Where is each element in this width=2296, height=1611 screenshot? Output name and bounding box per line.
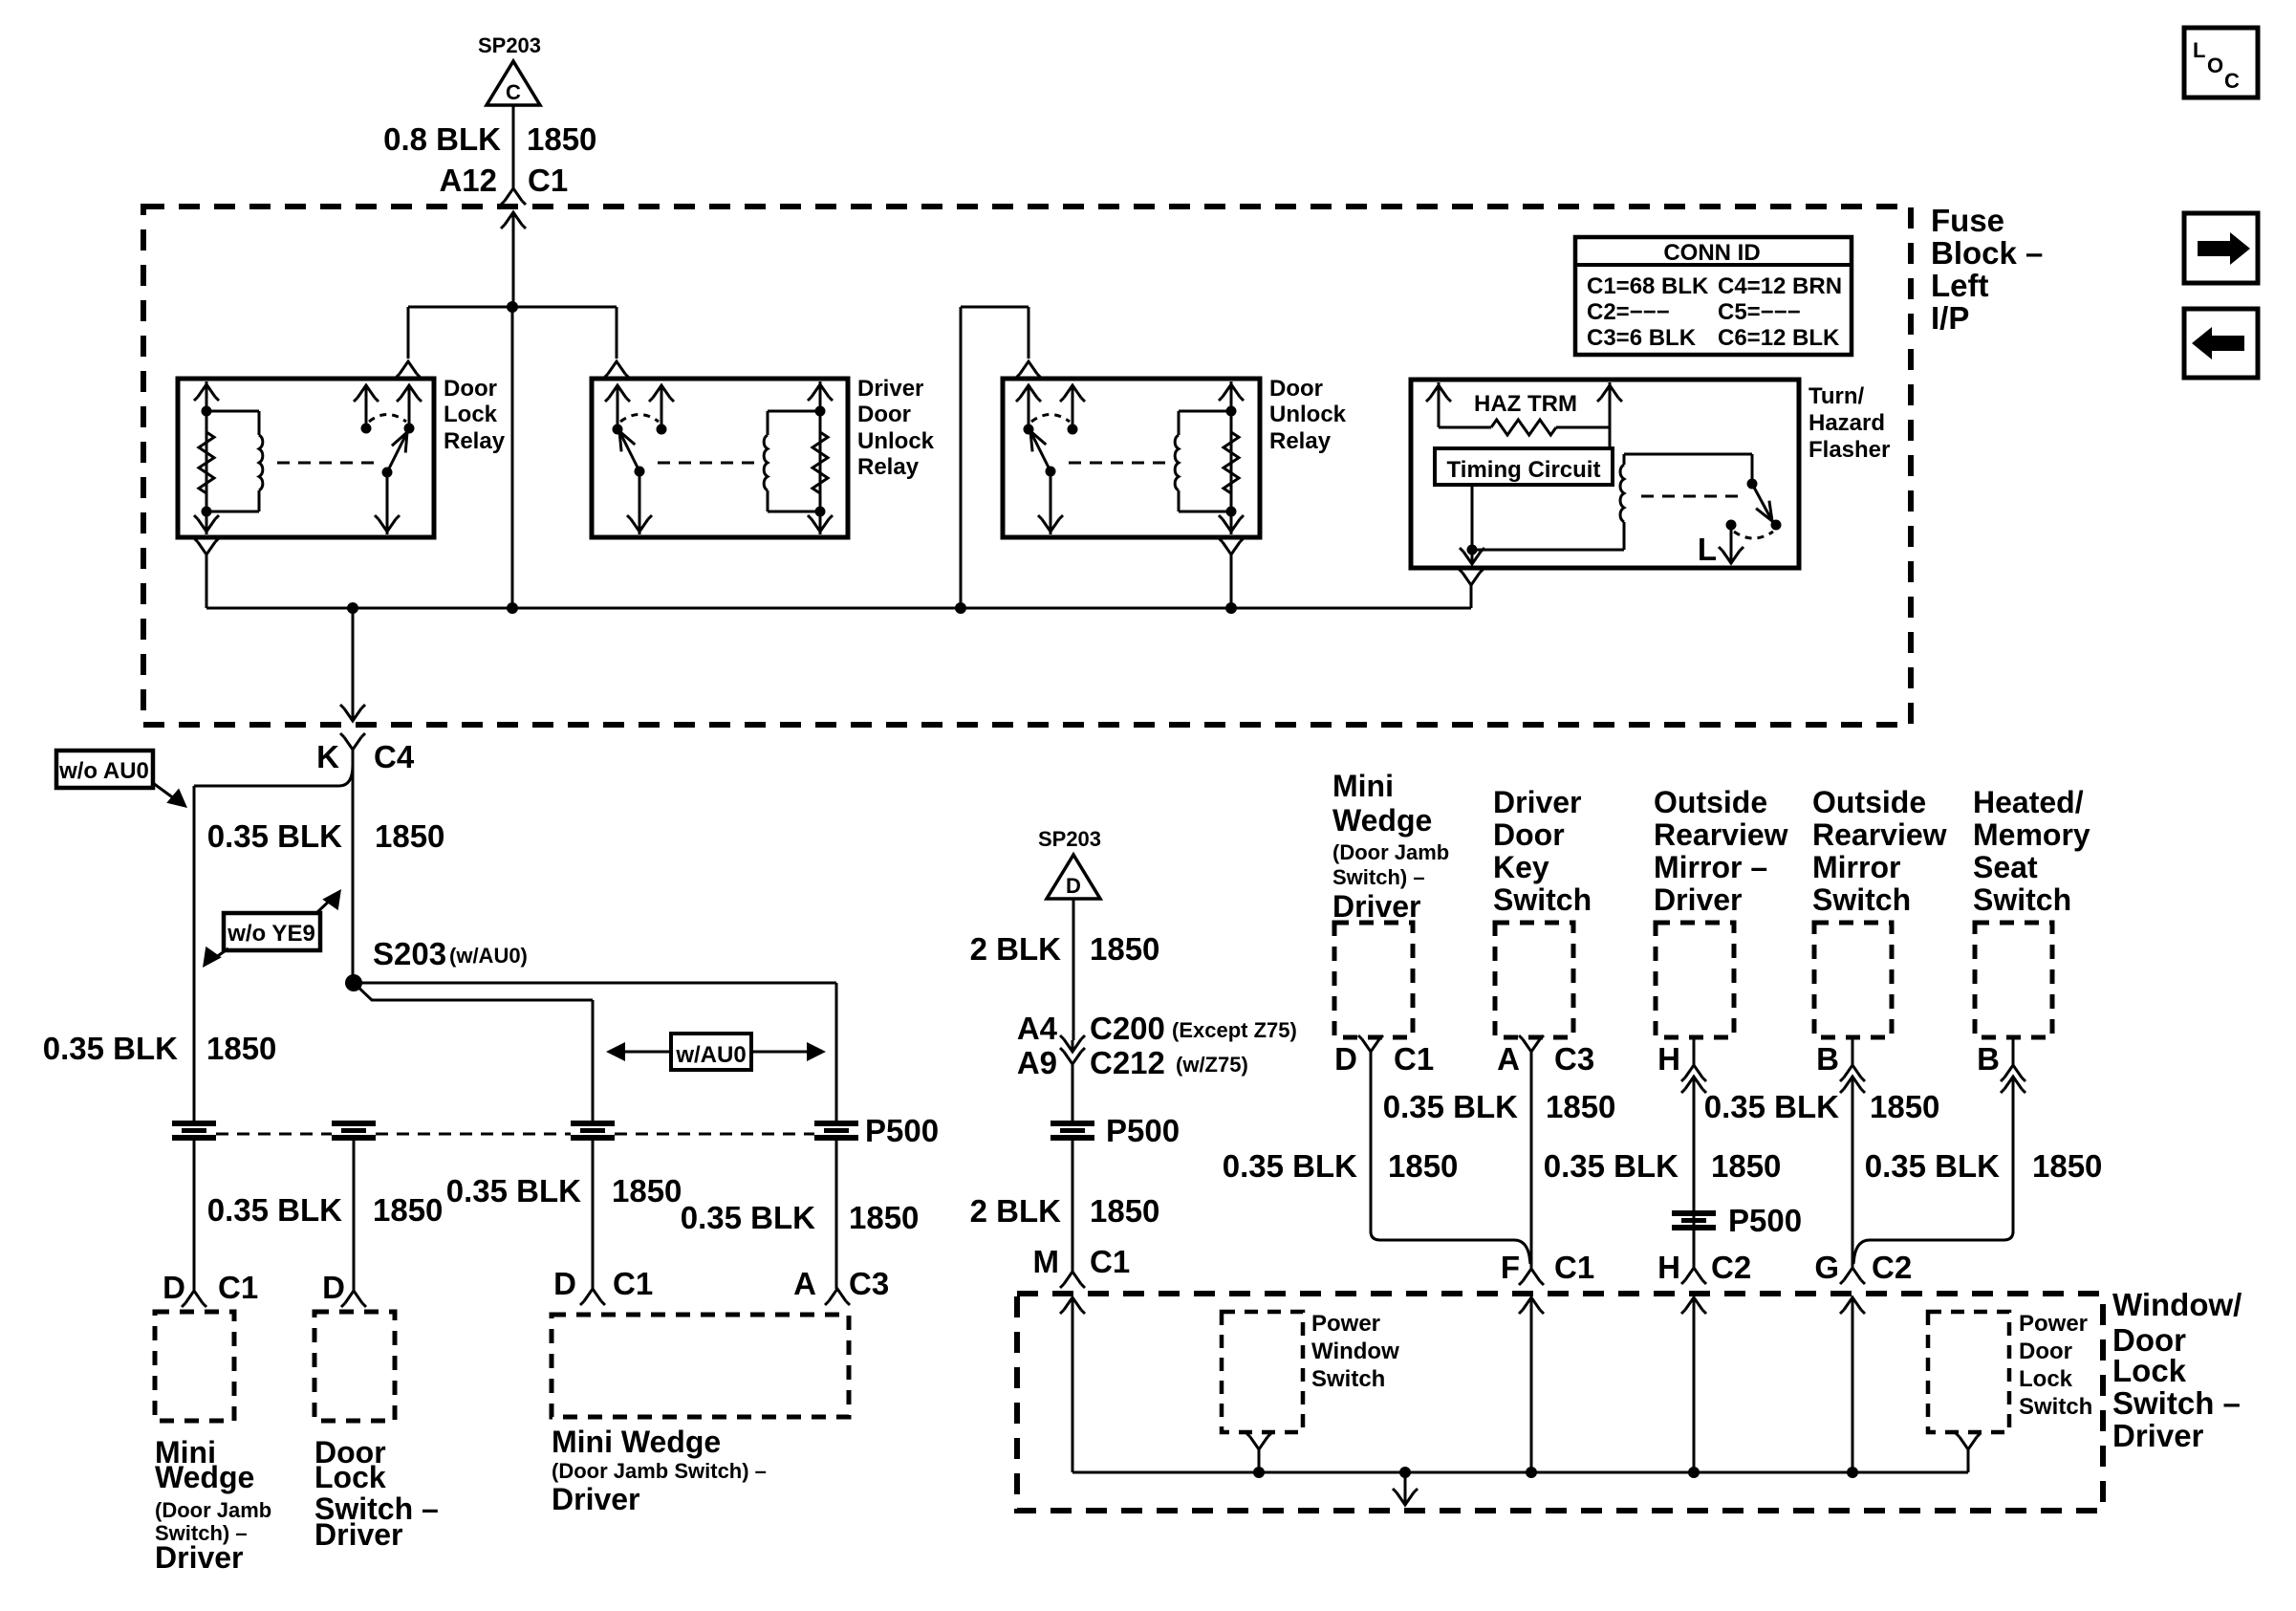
relay K2 actuation dashed link (658, 462, 760, 465)
connector below relay K3 (female) (1219, 538, 1244, 555)
wire label 0.35 BLK 1850 (mini wedge right) (1223, 1148, 1459, 1184)
fuse block dashed outline (Fuse Block - Left I/P) (143, 207, 1911, 725)
turn/hazard flasher box (1411, 380, 1799, 568)
relay K3 switch common drop (1038, 471, 1063, 534)
svg-text:1850: 1850 (373, 1192, 443, 1228)
component box Outside Rearview Mirror Driver (1656, 923, 1734, 1037)
node junction at feed split (507, 301, 518, 313)
svg-text:Driver: Driver (1654, 882, 1743, 917)
svg-text:H: H (1657, 1250, 1680, 1285)
flasher switch pivot (1747, 479, 1758, 490)
svg-text:1850: 1850 (527, 121, 596, 157)
label Power Window Switch (1311, 1311, 1399, 1392)
svg-text:0.35 BLK: 0.35 BLK (446, 1173, 581, 1208)
svg-text:Door: Door (2019, 1339, 2072, 1364)
svg-text:Driver: Driver (857, 376, 923, 402)
connector chevron into door lock relay (396, 361, 421, 378)
wire into fuse block with arrow (501, 212, 526, 307)
node bus-relay K3 riser (955, 602, 966, 614)
relay K2 coil bottom node (815, 507, 826, 517)
wire M C1 into box (1060, 1297, 1085, 1472)
svg-text:K: K (316, 739, 339, 774)
svg-text:Left: Left (1931, 268, 1989, 303)
label Door Unlock Relay (1269, 376, 1347, 454)
svg-text:1850: 1850 (375, 818, 444, 854)
svg-text:2 BLK: 2 BLK (970, 1193, 1062, 1229)
wire label 2 BLK 1850 (upper) (970, 931, 1160, 967)
timing circuit box (1435, 448, 1613, 485)
svg-text:0.35 BLK: 0.35 BLK (1865, 1148, 2000, 1184)
connector into door lock switch (female) (341, 1291, 366, 1307)
svg-text:Switch: Switch (1812, 882, 1911, 917)
svg-text:1850: 1850 (849, 1200, 919, 1235)
svg-text:1850: 1850 (2032, 1148, 2102, 1184)
connector below power window switch (female) (1246, 1433, 1271, 1472)
callout w/o YE9 (203, 889, 341, 968)
callout w/o AU0 (56, 751, 187, 808)
svg-text:A12: A12 (439, 163, 497, 198)
connector C2 pin G (female) (1840, 1268, 1865, 1284)
terminal label A / C3 (key switch) (1497, 1041, 1594, 1077)
wire feed bus to relays 1 and 2 (408, 306, 617, 309)
svg-text:G: G (1814, 1250, 1839, 1285)
wire F C1 into box (1519, 1297, 1544, 1472)
svg-text:C1=68 BLK: C1=68 BLK (1587, 273, 1709, 299)
svg-text:1850: 1850 (1546, 1089, 1615, 1124)
wire to flasher coil (1472, 549, 1624, 552)
svg-text:Door: Door (1493, 817, 1565, 852)
svg-text:w/o AU0: w/o AU0 (58, 758, 149, 784)
relay K2 switch common drop (627, 471, 652, 534)
wire drop to driver door unlock relay (616, 307, 618, 359)
svg-text:F: F (1501, 1250, 1520, 1285)
svg-text:w/AU0: w/AU0 (675, 1042, 746, 1068)
callout w/AU0 double arrow (606, 1034, 826, 1070)
svg-text:S203: S203 (373, 936, 446, 971)
svg-text:Turn/: Turn/ (1809, 383, 1865, 409)
svg-text:Timing Circuit: Timing Circuit (1447, 457, 1601, 483)
label Power Door Lock Switch (2019, 1311, 2092, 1420)
node bus-main vertical (507, 602, 518, 614)
svg-text:Lock: Lock (2019, 1366, 2073, 1392)
svg-text:(w/Z75): (w/Z75) (1176, 1053, 1248, 1077)
svg-text:Mini Wedge: Mini Wedge (552, 1425, 721, 1459)
wire mirror driver down (1693, 1037, 1696, 1268)
terminal label B (mirror switch) (1816, 1041, 1839, 1077)
svg-text:Heated/: Heated/ (1973, 785, 2084, 819)
svg-text:(w/AU0): (w/AU0) (449, 944, 528, 968)
ground exit arrow (1393, 1472, 1418, 1505)
label Window/Door Lock Switch Driver (2112, 1287, 2242, 1453)
grommet P500 (wire 2) (332, 1121, 376, 1141)
label Door Lock Relay (444, 376, 506, 454)
node bus ground exit (1399, 1467, 1411, 1478)
connector below door lock relay (female) (194, 538, 219, 555)
relay K3 coil bottom node (1226, 507, 1237, 517)
svg-text:Block –: Block – (1931, 235, 2043, 271)
relay K2 switch terminal 2 (649, 385, 674, 435)
relay K2 coil top node (815, 406, 826, 417)
svg-text:C1: C1 (1090, 1244, 1130, 1279)
grommet P500 (wire 1) (172, 1121, 216, 1141)
connector C2 pin H (female) (1681, 1268, 1706, 1284)
svg-text:C1: C1 (1394, 1041, 1434, 1077)
connector double chevron (seat switch) (2001, 1065, 2025, 1093)
component box Power Door Lock Switch (1928, 1312, 2009, 1432)
svg-text:Outside: Outside (1812, 785, 1926, 819)
wire S203 top branch (354, 983, 836, 1122)
terminal label F / C1 (1501, 1250, 1594, 1285)
svg-text:O: O (2207, 54, 2223, 77)
wire label 0.35 BLK 1850 (K C4 wire) (207, 818, 445, 854)
svg-text:0.35 BLK: 0.35 BLK (207, 1192, 342, 1228)
component box Mini Wedge (Door Jamb Switch) Driver 2 (552, 1315, 849, 1417)
svg-text:D: D (553, 1266, 576, 1301)
label HAZ TRM (1474, 391, 1577, 417)
connector into mini wedge box D (female) (580, 1289, 605, 1305)
label P500 (865, 1113, 939, 1148)
wire elbow mini wedge right to F C1 (1371, 1231, 1530, 1264)
wire H C2 into box (1681, 1297, 1706, 1472)
wire label 0.35 BLK 1850 (mirror switch) (1704, 1089, 1940, 1124)
grommet P500 (main wire) (1051, 1121, 1094, 1141)
svg-text:B: B (1816, 1041, 1839, 1077)
svg-text:D: D (162, 1270, 185, 1305)
label Timing Circuit (1447, 457, 1601, 483)
relay K3 switch arm (1030, 431, 1056, 477)
relay K1 Door Lock Relay box (178, 379, 434, 537)
svg-text:Driver: Driver (2112, 1418, 2204, 1453)
wire bus drop to connector C4 (340, 608, 365, 721)
label Fuse Block - Left I/P (1931, 203, 2043, 336)
svg-text:Window: Window (1311, 1339, 1399, 1364)
terminal label D / C1 (wire 3) (553, 1266, 653, 1301)
svg-text:C2=−−−: C2=−−− (1587, 299, 1670, 325)
relay K1 switch terminal 1 (354, 385, 379, 434)
relay K2 Driver Door Unlock Relay box (592, 379, 848, 537)
svg-text:Lock: Lock (444, 402, 498, 427)
label Driver Door Key Switch (1493, 785, 1592, 917)
node bus G (1847, 1467, 1858, 1478)
icon LOC (2184, 28, 2258, 98)
icon arrow left (2184, 309, 2258, 378)
svg-text:1850: 1850 (206, 1031, 276, 1066)
svg-text:Seat: Seat (1973, 850, 2038, 884)
inductor coil in relay K3 (1175, 435, 1179, 490)
internal ground bus (1072, 1471, 1968, 1474)
connector into mini wedge box A (female) (825, 1289, 850, 1305)
wire 4 to mini wedge box (835, 1139, 838, 1289)
svg-text:Window/: Window/ (2112, 1287, 2242, 1322)
svg-text:C212: C212 (1090, 1045, 1165, 1080)
resistor in relay K2 (812, 432, 828, 493)
svg-text:C3=6 BLK: C3=6 BLK (1587, 325, 1697, 351)
svg-text:Switch: Switch (1973, 882, 2071, 917)
connector into mini wedge 1 (female) (182, 1291, 206, 1307)
svg-text:C1: C1 (1554, 1250, 1594, 1285)
svg-text:A4: A4 (1017, 1011, 1058, 1046)
terminal label M / C1 (1033, 1244, 1131, 1279)
wire drop to door lock relay (407, 307, 410, 359)
svg-text:Relay: Relay (1269, 428, 1332, 454)
svg-text:Wedge: Wedge (1332, 803, 1432, 838)
svg-text:SP203: SP203 (1038, 827, 1101, 851)
svg-text:HAZ TRM: HAZ TRM (1474, 391, 1577, 417)
relay K3 switch terminal 2 (1060, 385, 1085, 435)
flasher right pin line (1597, 382, 1622, 448)
wire SP203-D down (1072, 899, 1075, 1040)
flasher ground pin arrow (1460, 548, 1484, 564)
svg-text:Power: Power (1311, 1311, 1380, 1337)
svg-text:Switch –: Switch – (2112, 1385, 2241, 1421)
node bus F (1526, 1467, 1537, 1478)
connector below key switch (female) (1519, 1035, 1544, 1052)
splice symbol SP203 (triangle C) (478, 33, 541, 105)
svg-text:Fuse: Fuse (1931, 203, 2004, 238)
flasher switch contact 2 (1771, 520, 1782, 531)
svg-text:0.35 BLK: 0.35 BLK (1223, 1148, 1357, 1184)
icon arrow right (2184, 213, 2258, 283)
svg-text:Driver: Driver (1493, 785, 1582, 819)
component box Driver Door Key Switch (1495, 923, 1573, 1037)
connector C1 pin A12 (female) (501, 188, 526, 205)
flasher switch dashed arc (1734, 532, 1773, 538)
svg-text:CONN ID: CONN ID (1663, 240, 1760, 266)
wire to M C1 (1072, 1139, 1074, 1272)
grommet P500 (wire 4) (814, 1121, 858, 1141)
terminal label B (seat switch) (1977, 1041, 2000, 1077)
svg-text:Mini: Mini (1332, 769, 1394, 803)
resistor HAZ TRM (1439, 420, 1610, 435)
connector C1 pin F (female) (1519, 1269, 1544, 1285)
svg-text:C: C (506, 80, 521, 104)
node bus power window switch (1253, 1467, 1265, 1478)
relay K1 switch terminal 2 (397, 385, 422, 434)
inductor coil in relay K1 (259, 435, 263, 490)
wire coil to switch pivot (1624, 454, 1752, 484)
svg-text:Memory: Memory (1973, 817, 2090, 852)
wire relay K3 to ground bus (1230, 555, 1233, 608)
svg-text:0.8 BLK: 0.8 BLK (383, 121, 501, 157)
relay K3 coil-side pin line (1219, 381, 1244, 534)
svg-text:C3: C3 (1554, 1041, 1594, 1077)
svg-text:P500: P500 (865, 1113, 939, 1148)
pass-through dashed line P500 (216, 1133, 814, 1136)
svg-text:0.35 BLK: 0.35 BLK (1544, 1148, 1679, 1184)
wire label 0.35 BLK 1850 (seat switch) (1865, 1148, 2103, 1184)
wire key switch down (1530, 1051, 1533, 1269)
relay K3 actuation dashed link (1069, 462, 1171, 465)
node bus H (1688, 1467, 1700, 1478)
label Turn/Hazard Flasher (1809, 383, 1890, 463)
wire main vertical to ground bus (511, 307, 514, 608)
svg-text:A: A (793, 1266, 816, 1301)
label Driver Door Unlock Relay (857, 376, 935, 480)
svg-text:A: A (1497, 1041, 1520, 1077)
relay K1 coil-side pin line (194, 381, 219, 534)
svg-text:P500: P500 (1106, 1113, 1180, 1148)
wire label 0.35 BLK 1850 (wire 3) (446, 1173, 682, 1208)
window/door lock switch dashed outline (1017, 1294, 2103, 1511)
component box Power Window Switch (1222, 1312, 1303, 1432)
node bus-relay K3 ground (1225, 602, 1237, 614)
svg-text:Mirror –: Mirror – (1654, 850, 1767, 884)
svg-text:I/P: I/P (1931, 300, 1969, 336)
svg-text:(Door Jamb: (Door Jamb (155, 1498, 271, 1522)
connector below flasher (female) (1459, 569, 1484, 585)
component box Outside Rearview Mirror Switch (1814, 923, 1892, 1037)
wire riser from ground bus to relay K3 (961, 307, 1029, 608)
relay K3 switch terminal 1 (1016, 385, 1041, 435)
svg-text:0.35 BLK: 0.35 BLK (43, 1031, 178, 1066)
svg-text:C3: C3 (849, 1266, 889, 1301)
wire 1 to mini wedge driver (193, 1139, 196, 1291)
terminal label A12 / C1 (439, 163, 568, 198)
label Heated/Memory Seat Switch (1973, 785, 2090, 917)
terminal labels A4 C200 (Except Z75) (1017, 1011, 1297, 1046)
connector chevron into driver door unlock relay (604, 361, 629, 378)
wire label 0.35 BLK 1850 (wire 4) (681, 1200, 920, 1235)
wire branch to w/o AU0 path (194, 765, 353, 1122)
flasher coil (1620, 454, 1624, 550)
svg-text:0.35 BLK: 0.35 BLK (1383, 1089, 1518, 1124)
label Mini Wedge (Door Jamb Switch) Driver 1 (155, 1435, 271, 1575)
svg-text:Power: Power (2019, 1311, 2088, 1337)
label Mini Wedge (Door Jamb Switch) Driver (right) (1332, 769, 1449, 924)
svg-text:Driver: Driver (314, 1517, 403, 1552)
svg-text:C5=−−−: C5=−−− (1718, 299, 1801, 325)
terminal label D / C1 (mini wedge right) (1334, 1041, 1434, 1077)
svg-text:C: C (2224, 69, 2240, 93)
svg-text:C4=12 BRN: C4=12 BRN (1718, 273, 1842, 299)
svg-text:Rearview: Rearview (1654, 817, 1788, 852)
node timing circuit ground junction (1467, 545, 1478, 555)
svg-text:Door: Door (444, 376, 497, 402)
wire mini wedge right down (0, 0, 1, 1)
terminal label D (wire 2) (322, 1270, 345, 1305)
inductor coil in relay K2 (764, 435, 768, 490)
svg-text:Switch: Switch (2019, 1394, 2092, 1420)
svg-text:Driver: Driver (552, 1482, 640, 1516)
wire label 0.8 BLK 1850 (383, 121, 596, 157)
flasher L pin drop (1719, 525, 1744, 564)
svg-text:0.35 BLK: 0.35 BLK (207, 818, 342, 854)
svg-text:D: D (1334, 1041, 1357, 1077)
svg-text:Rearview: Rearview (1812, 817, 1947, 852)
component box Door Lock Switch Driver (314, 1312, 395, 1421)
svg-text:C200: C200 (1090, 1011, 1165, 1046)
wire SP203-C to fuse block (512, 105, 515, 190)
wire S203 lower branch (354, 983, 593, 1122)
svg-text:Key: Key (1493, 850, 1549, 884)
relay K2 coil-side pin line (808, 381, 833, 534)
flasher switch contact L (1726, 520, 1737, 531)
relay K1 switch arm (382, 432, 408, 478)
svg-text:C6=12 BLK: C6=12 BLK (1718, 325, 1840, 351)
flasher switch arm (1752, 484, 1772, 521)
wire label 0.35 BLK 1850 (key switch) (1383, 1089, 1616, 1124)
svg-text:0.35 BLK: 0.35 BLK (1704, 1089, 1839, 1124)
svg-text:C2: C2 (1711, 1250, 1751, 1285)
splice S203 (345, 974, 362, 991)
svg-text:M: M (1033, 1244, 1060, 1279)
label S203 (w/AU0) (373, 936, 528, 971)
relay K1 switch throw dashed arc (369, 415, 406, 423)
svg-text:Wedge: Wedge (155, 1460, 254, 1494)
connector C1 pin M (female) (1060, 1272, 1085, 1288)
svg-text:L: L (1698, 532, 1717, 567)
svg-text:1850: 1850 (1090, 931, 1159, 967)
svg-text:A9: A9 (1017, 1045, 1057, 1080)
label Outside Rearview Mirror Driver (1654, 785, 1788, 917)
svg-text:C1: C1 (218, 1270, 258, 1305)
svg-text:Relay: Relay (444, 428, 506, 454)
relay K2 coil connect wires (768, 411, 820, 512)
terminal label G / C2 (1814, 1250, 1912, 1285)
relay K2 switch throw dashed arc (620, 415, 659, 423)
wire relay K1 to ground bus (206, 555, 208, 608)
grommet P500 (wire 3) (571, 1121, 615, 1141)
relay K1 coil connect wires (206, 411, 259, 512)
terminal labels A9 C212 (w/Z75) (1017, 1045, 1248, 1080)
terminal label D / C1 (wire 1) (162, 1270, 258, 1305)
relay K3 switch throw dashed arc (1031, 415, 1070, 423)
relay K3 coil connect wires (1179, 411, 1231, 512)
relay K2 switch arm (619, 431, 645, 477)
svg-text:L: L (2193, 38, 2205, 62)
relay K3 Door Unlock Relay box (1003, 379, 1260, 537)
connector double chevron (mirror driver) (1681, 1065, 1706, 1093)
label P500 (main wire) (1106, 1113, 1180, 1148)
label L (1698, 532, 1717, 567)
svg-text:Flasher: Flasher (1809, 437, 1890, 463)
svg-text:P500: P500 (1728, 1203, 1802, 1238)
label Mini Wedge (Door Jamb Switch) Driver 2 (552, 1425, 767, 1516)
component box Heated/Memory Seat Switch (1975, 923, 2052, 1037)
terminal label A / C3 (wire 4) (793, 1266, 889, 1301)
resistor in relay K3 (1224, 432, 1239, 493)
svg-text:1850: 1850 (1388, 1148, 1458, 1184)
wire timing circuit to ground pin (1471, 485, 1474, 552)
splice symbol SP203 (triangle D) (1038, 827, 1101, 899)
connector chevron into door unlock relay (1016, 361, 1041, 378)
relay K3 coil top node (1226, 406, 1237, 417)
terminal label H (mirror driver) (1657, 1041, 1680, 1077)
svg-text:Lock: Lock (2112, 1353, 2187, 1388)
svg-text:H: H (1657, 1041, 1680, 1077)
svg-text:Door: Door (1269, 376, 1323, 402)
svg-text:C2: C2 (1872, 1250, 1912, 1285)
svg-text:Hazard: Hazard (1809, 410, 1885, 436)
svg-text:(Except Z75): (Except Z75) (1172, 1018, 1297, 1042)
svg-text:C1: C1 (528, 163, 568, 198)
wire label 0.35 BLK 1850 (wire 2) (207, 1192, 444, 1228)
svg-text:Relay: Relay (857, 454, 920, 480)
relay K1 coil bottom node (202, 507, 212, 517)
component box Mini Wedge right (1334, 923, 1413, 1037)
relay K2 switch terminal 1 (605, 385, 630, 435)
svg-text:B: B (1977, 1041, 2000, 1077)
svg-text:C1: C1 (613, 1266, 653, 1301)
svg-text:0.35 BLK: 0.35 BLK (681, 1200, 815, 1235)
wire seat switch down (2012, 1037, 2015, 1233)
relay K1 actuation dashed link (277, 462, 378, 465)
relay K1 switch common drop (375, 472, 400, 534)
terminal label K / C4 (316, 739, 415, 774)
svg-text:SP203: SP203 (478, 33, 541, 57)
wire label 0.35 BLK 1850 (mirror driver) (1544, 1148, 1782, 1184)
svg-text:1850: 1850 (1711, 1148, 1781, 1184)
